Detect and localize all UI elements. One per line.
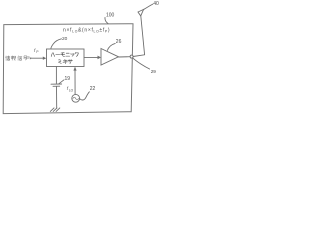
label 20: [51, 36, 68, 48]
input arrow: [31, 57, 47, 60]
node 29 output terminal: [130, 55, 133, 58]
svg-text:P: P: [36, 50, 38, 54]
ground: [50, 108, 60, 112]
mixer text line2 (katakana mikisa): [59, 59, 73, 63]
label 26: [107, 39, 121, 50]
label 40: [144, 1, 159, 10]
antenna: [138, 9, 144, 16]
capacitor 19: [51, 84, 62, 86]
mixer text line1 (katakana ha-monikku): [51, 52, 78, 56]
svg-text:n×fLO&(n×fLO±fP): n×fLO&(n×fLO±fP): [63, 27, 110, 33]
label 22: [80, 86, 96, 100]
label 19: [59, 76, 70, 84]
label fP input frequency: [34, 48, 39, 54]
svg-text:LO: LO: [69, 88, 74, 92]
input signal text (kanji jouhou shingou): [5, 56, 32, 61]
wire antenna feed: [133, 16, 145, 57]
svg-text:100: 100: [106, 13, 115, 19]
label 29: [133, 58, 157, 74]
svg-text:22: 22: [90, 86, 96, 92]
harmonic mixer box 20: [47, 49, 85, 67]
oscillator 22: [72, 94, 80, 102]
wire oscillator to mixer with arrowhead: [73, 67, 76, 95]
label fLO oscillator frequency: [67, 86, 74, 93]
outer block 100 boundary: [3, 24, 133, 114]
wire mixer to capacitor: [55, 67, 57, 84]
wire capacitor to ground: [56, 87, 58, 109]
wire mixer to amp with arrowhead: [84, 56, 101, 60]
svg-text:40: 40: [153, 1, 159, 7]
svg-text:20: 20: [62, 36, 68, 42]
wire amp output to node: [119, 56, 130, 58]
svg-text:29: 29: [151, 69, 157, 74]
svg-text:19: 19: [65, 76, 71, 82]
frequency label n x fLO & (n x fLO +- fP): [63, 27, 110, 33]
svg-text:26: 26: [116, 39, 122, 45]
op-amp buffer 26: [101, 49, 119, 66]
label 100: [105, 13, 115, 24]
